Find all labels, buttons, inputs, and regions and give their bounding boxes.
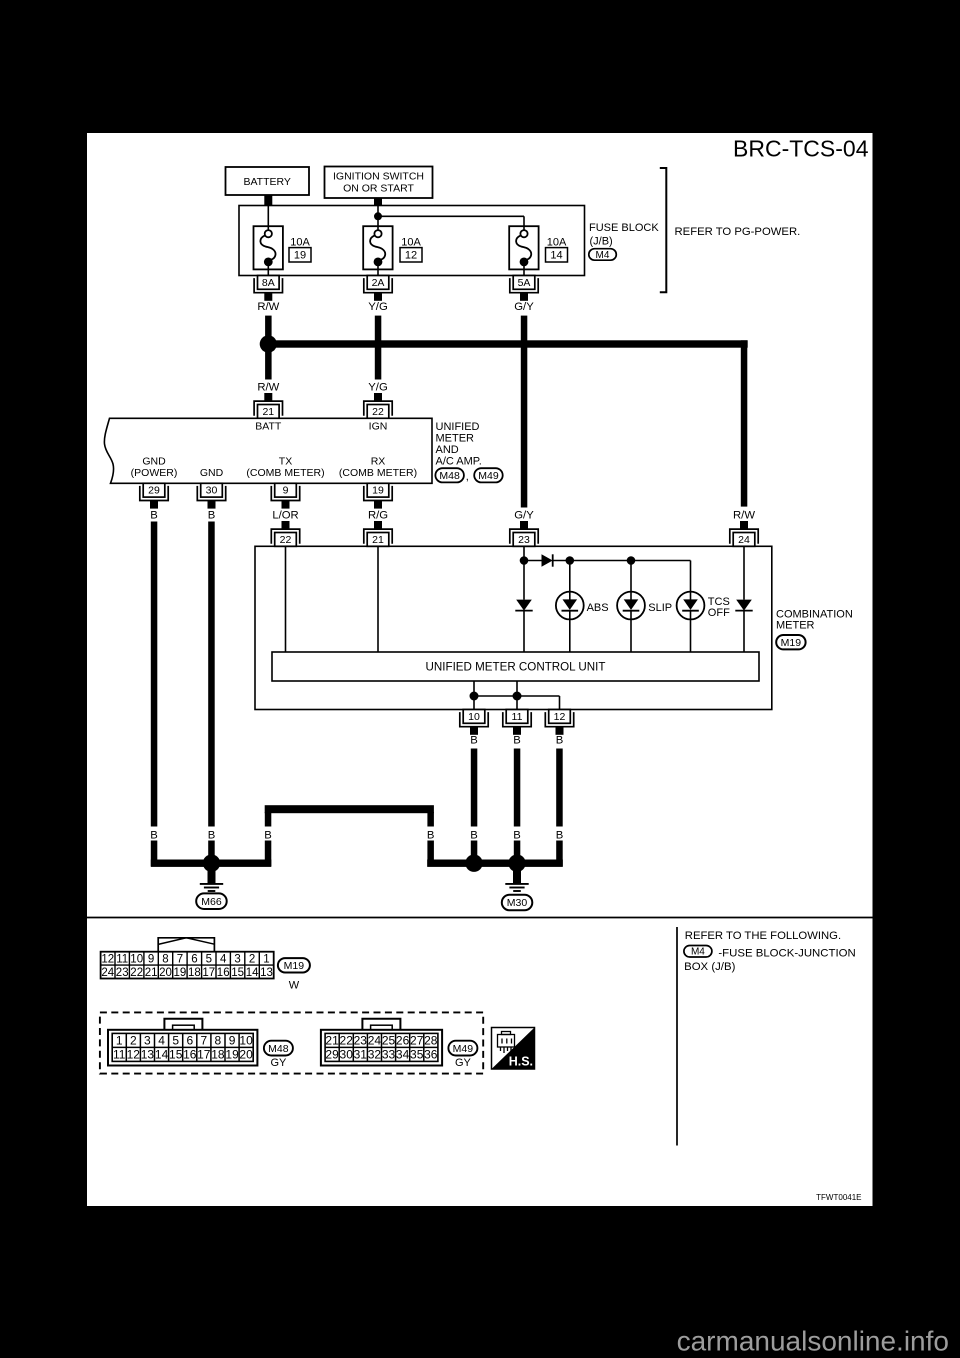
svg-text:29: 29: [325, 1047, 339, 1061]
svg-text:(COMB METER): (COMB METER): [246, 467, 324, 479]
svg-text:BATT: BATT: [255, 421, 282, 433]
connector label M4: [589, 249, 617, 261]
svg-text:2: 2: [130, 1033, 137, 1047]
svg-text:28: 28: [424, 1033, 438, 1047]
svg-text:B: B: [150, 510, 158, 522]
svg-text:14: 14: [550, 250, 562, 262]
svg-text:M49: M49: [478, 470, 499, 482]
svg-text:12: 12: [554, 711, 566, 723]
svg-text:16: 16: [217, 967, 230, 979]
svg-text:13: 13: [260, 967, 273, 979]
svg-text:9: 9: [229, 1033, 236, 1047]
svg-text:R/W: R/W: [257, 301, 279, 313]
wire ignition feed to fuse 14: [378, 215, 524, 217]
ground wire B from 30: [208, 522, 215, 827]
svg-text:15: 15: [169, 1047, 183, 1061]
ignition switch box: [325, 167, 433, 199]
wire Y/G from 2A down: [375, 316, 382, 380]
svg-text:21: 21: [372, 534, 384, 546]
svg-text:2: 2: [249, 953, 255, 965]
svg-text:23: 23: [354, 1033, 368, 1047]
connector 8A: [264, 293, 272, 301]
svg-text:B: B: [150, 830, 158, 842]
svg-text:36: 36: [424, 1047, 438, 1061]
fuse block (J/B) box: [239, 206, 585, 276]
svg-text:30: 30: [340, 1047, 354, 1061]
combination meter box: [255, 546, 772, 709]
svg-text:22: 22: [340, 1033, 354, 1047]
svg-text:18: 18: [188, 967, 201, 979]
svg-text:IGN: IGN: [369, 421, 388, 433]
svg-text:B: B: [264, 830, 272, 842]
ground bridge wire: [265, 805, 434, 813]
svg-text:SLIP: SLIP: [648, 602, 672, 614]
svg-text:M4: M4: [691, 947, 705, 958]
svg-text:4: 4: [158, 1033, 165, 1047]
svg-text:22: 22: [130, 967, 143, 979]
junction node SLIP rail: [627, 556, 636, 565]
svg-text:5: 5: [206, 953, 212, 965]
connector 23 comb meter: [520, 521, 528, 529]
svg-text:14: 14: [246, 967, 259, 979]
connector label M19 face: [278, 958, 310, 972]
battery box: [226, 167, 310, 195]
svg-text:RX: RX: [371, 456, 386, 468]
svg-text:BATTERY: BATTERY: [243, 176, 290, 188]
svg-text:10: 10: [468, 711, 480, 723]
connector 12: [556, 727, 564, 735]
wire rail to SLIP lamp: [630, 561, 632, 592]
svg-text:33: 33: [382, 1047, 396, 1061]
unified meter and a/c amp box: [104, 418, 432, 483]
svg-text:ABS: ABS: [587, 602, 609, 614]
svg-text:25: 25: [382, 1033, 396, 1047]
svg-text:17: 17: [202, 967, 215, 979]
svg-text:FUSE BLOCK: FUSE BLOCK: [589, 222, 659, 234]
svg-text:REFER TO PG-POWER.: REFER TO PG-POWER.: [675, 226, 801, 238]
svg-text:23: 23: [518, 534, 530, 546]
diode D1 horizontal: [524, 560, 542, 562]
H.S. mark: [492, 1028, 535, 1070]
svg-text:(J/B): (J/B): [590, 236, 613, 248]
svg-text:9: 9: [148, 953, 154, 965]
svg-text:A/C AMP.: A/C AMP.: [436, 455, 482, 467]
svg-text:B: B: [427, 830, 435, 842]
harness dashed box: [100, 1012, 483, 1073]
svg-text:16: 16: [183, 1047, 197, 1061]
svg-text:35: 35: [410, 1047, 424, 1061]
svg-text:M19: M19: [284, 960, 305, 972]
svg-text:BOX (J/B): BOX (J/B): [684, 961, 735, 973]
svg-text:7: 7: [200, 1033, 207, 1047]
svg-text:19: 19: [174, 967, 187, 979]
svg-text:B: B: [513, 735, 521, 747]
svg-text:B: B: [208, 830, 216, 842]
svg-text:G/Y: G/Y: [514, 301, 534, 313]
svg-text:R/W: R/W: [733, 510, 755, 522]
svg-text:31: 31: [354, 1047, 368, 1061]
connector label M49: [474, 468, 503, 482]
svg-text:10: 10: [239, 1033, 253, 1047]
svg-text:21: 21: [325, 1033, 339, 1047]
svg-text:UNIFIED: UNIFIED: [436, 421, 480, 433]
wire rail to ABS lamp: [569, 561, 571, 592]
connector 21 comb meter: [374, 521, 382, 529]
wire G/Y from 5A down: [521, 316, 528, 508]
connector label M4 note: [684, 946, 712, 958]
ground symbol M66: [208, 863, 216, 883]
connector 19 RX: [374, 501, 382, 509]
connector label M48 face: [264, 1041, 293, 1056]
ground wire col11: [514, 749, 521, 827]
wire R/W bus down right branch: [741, 340, 748, 506]
svg-text:GND: GND: [200, 467, 224, 479]
svg-text:5A: 5A: [518, 277, 531, 289]
connector M19 face tab: [158, 938, 214, 951]
svg-text:19: 19: [225, 1047, 239, 1061]
svg-text:5: 5: [172, 1033, 179, 1047]
connector 11: [513, 727, 521, 735]
svg-text:B: B: [208, 510, 216, 522]
junction node R/W bus: [260, 335, 277, 352]
svg-text:24: 24: [738, 534, 750, 546]
wire lamp feed rail: [553, 560, 691, 562]
svg-text:carmanualsonline.info: carmanualsonline.info: [677, 1326, 949, 1357]
svg-text:22: 22: [372, 406, 384, 418]
junction node ground 10: [465, 855, 482, 872]
svg-text:12: 12: [405, 250, 417, 262]
svg-text:B: B: [470, 735, 478, 747]
svg-text:26: 26: [396, 1033, 410, 1047]
svg-text:14: 14: [155, 1047, 169, 1061]
svg-text:15: 15: [231, 967, 244, 979]
wire R/W from 8A to bus: [265, 316, 272, 341]
junction node 11: [513, 692, 522, 701]
refer-to divider: [676, 927, 678, 1146]
svg-text:1: 1: [116, 1033, 123, 1047]
svg-text:G/Y: G/Y: [514, 510, 534, 522]
wire jumper to 12: [474, 695, 560, 697]
svg-text:ON OR START: ON OR START: [343, 182, 414, 194]
svg-text:Y/G: Y/G: [368, 301, 387, 313]
svg-text:METER: METER: [776, 619, 815, 631]
bracket refer to pg-power: [660, 168, 667, 292]
svg-text:8A: 8A: [262, 277, 275, 289]
svg-text:(POWER): (POWER): [131, 467, 178, 479]
svg-text:12: 12: [101, 953, 114, 965]
svg-text:20: 20: [159, 967, 172, 979]
separator rule: [87, 917, 873, 919]
svg-text:23: 23: [116, 967, 129, 979]
svg-text:3: 3: [234, 953, 240, 965]
wire battery to fuse block: [264, 195, 272, 206]
wire control unit to 11: [516, 681, 518, 710]
svg-text:24: 24: [368, 1033, 382, 1047]
connector 10: [470, 727, 478, 735]
svg-text:8: 8: [162, 953, 168, 965]
svg-text:-FUSE BLOCK-JUNCTION: -FUSE BLOCK-JUNCTION: [718, 948, 855, 960]
svg-text:2A: 2A: [372, 277, 385, 289]
svg-text:19: 19: [372, 485, 384, 497]
fuse 19 10A: [254, 226, 283, 269]
connector M48 face: [108, 1030, 257, 1066]
connector label M19: [776, 635, 805, 649]
svg-text:AND: AND: [436, 444, 459, 456]
ground wire stubs to bus: [151, 841, 158, 867]
svg-text:TX: TX: [279, 456, 292, 468]
svg-text:34: 34: [396, 1047, 410, 1061]
svg-text:1: 1: [263, 953, 269, 965]
svg-text:27: 27: [410, 1033, 424, 1047]
svg-text:11: 11: [113, 1047, 126, 1061]
svg-text:6: 6: [186, 1033, 193, 1047]
svg-text:OFF: OFF: [708, 607, 730, 619]
svg-text:6: 6: [191, 953, 197, 965]
svg-text:GY: GY: [455, 1057, 472, 1069]
connector label M48: [435, 468, 464, 482]
svg-text:4: 4: [220, 953, 227, 965]
svg-text:R/G: R/G: [368, 510, 388, 522]
svg-text:10A: 10A: [547, 237, 567, 249]
diode D3 down col24: [743, 546, 745, 599]
svg-text:BRC-TCS-04: BRC-TCS-04: [733, 136, 869, 162]
junction node on ignition feed: [374, 212, 382, 220]
svg-text:R/W: R/W: [257, 382, 279, 394]
ground wire col10: [471, 749, 478, 827]
junction node 10: [470, 692, 479, 701]
connector 5A: [520, 293, 528, 301]
ground bus right: [427, 860, 563, 867]
ground wire col12: [556, 749, 563, 827]
svg-text:(COMB METER): (COMB METER): [339, 467, 417, 479]
svg-text:W: W: [289, 980, 300, 992]
svg-text:M66: M66: [201, 896, 222, 908]
svg-text:M19: M19: [781, 637, 802, 649]
svg-text:11: 11: [116, 953, 128, 965]
svg-text:7: 7: [177, 953, 183, 965]
svg-text:3: 3: [144, 1033, 151, 1047]
svg-text:L/OR: L/OR: [272, 510, 298, 522]
connector 30 GND: [208, 501, 216, 509]
indicator lamp ABS: [569, 592, 571, 600]
unified meter control unit box: [272, 652, 759, 681]
fuse 12 10A: [363, 226, 392, 269]
wire ignition switch to fuse block: [374, 198, 382, 206]
svg-text:21: 21: [145, 967, 158, 979]
connector M19 face grid: [101, 952, 274, 979]
junction node G/Y: [520, 556, 529, 565]
junction node ABS rail: [566, 556, 575, 565]
svg-text:20: 20: [239, 1047, 253, 1061]
svg-text:10: 10: [130, 953, 143, 965]
svg-text:10A: 10A: [401, 237, 421, 249]
svg-text:B: B: [470, 830, 478, 842]
connector 22 IGN: [374, 393, 382, 401]
wire 22 to control unit: [285, 546, 287, 652]
svg-text:8: 8: [215, 1033, 222, 1047]
svg-text:12: 12: [127, 1047, 141, 1061]
svg-text:H.S.: H.S.: [509, 1055, 533, 1069]
junction node ground 11: [508, 855, 525, 872]
ground wire B from 29: [151, 522, 158, 827]
svg-text:21: 21: [262, 406, 274, 418]
svg-text:Y/G: Y/G: [368, 382, 387, 394]
white diagram sheet: [87, 133, 873, 1206]
svg-text:M48: M48: [268, 1043, 289, 1055]
connector 22 comb meter: [282, 521, 290, 529]
connector 9 TX: [282, 501, 290, 509]
svg-text:B: B: [556, 830, 564, 842]
connector label M49 face: [448, 1041, 477, 1056]
svg-text:REFER TO THE FOLLOWING.: REFER TO THE FOLLOWING.: [685, 930, 841, 942]
svg-text:M49: M49: [453, 1043, 474, 1055]
ground symbol M30: [513, 863, 521, 883]
wire R/W below junction: [265, 348, 272, 380]
svg-text:11: 11: [512, 711, 523, 723]
wire 21 to control unit: [377, 546, 379, 652]
indicator lamp TCS OFF: [690, 592, 692, 600]
svg-text:M4: M4: [596, 250, 610, 261]
svg-text:B: B: [513, 830, 521, 842]
wire control unit to 10: [473, 681, 475, 710]
svg-text:10A: 10A: [290, 237, 310, 249]
svg-text:M48: M48: [439, 470, 460, 482]
svg-text:,: ,: [466, 471, 469, 483]
svg-text:17: 17: [197, 1047, 211, 1061]
ground bus left: [151, 860, 271, 867]
wire 23 into meter: [523, 546, 525, 560]
svg-text:UNIFIED METER CONTROL UNIT: UNIFIED METER CONTROL UNIT: [426, 661, 606, 674]
connector 24 comb meter: [740, 521, 748, 529]
svg-text:29: 29: [148, 485, 160, 497]
connector 2A: [374, 293, 382, 301]
svg-text:METER: METER: [436, 432, 475, 444]
junction node M66: [203, 855, 220, 872]
connector 29 GND(POWER): [150, 501, 158, 509]
fuse 14 10A: [509, 226, 538, 269]
svg-text:22: 22: [280, 534, 292, 546]
svg-text:19: 19: [294, 250, 306, 262]
svg-text:M30: M30: [507, 897, 528, 909]
diode D2 down col23: [523, 561, 525, 600]
indicator lamp SLIP: [630, 592, 632, 600]
svg-text:30: 30: [206, 485, 218, 497]
connector M49 face: [321, 1030, 442, 1066]
svg-text:9: 9: [283, 485, 289, 497]
svg-text:18: 18: [211, 1047, 225, 1061]
svg-text:GY: GY: [270, 1057, 287, 1069]
svg-text:24: 24: [101, 967, 114, 979]
connector 21 BATT: [264, 393, 272, 401]
bus wire R/W horizontal: [265, 340, 748, 347]
svg-text:GND: GND: [142, 456, 166, 468]
svg-text:32: 32: [368, 1047, 382, 1061]
svg-text:B: B: [556, 735, 564, 747]
svg-text:TFWT0041E: TFWT0041E: [816, 1193, 861, 1202]
svg-text:13: 13: [141, 1047, 155, 1061]
svg-text:IGNITION SWITCH: IGNITION SWITCH: [333, 170, 424, 182]
